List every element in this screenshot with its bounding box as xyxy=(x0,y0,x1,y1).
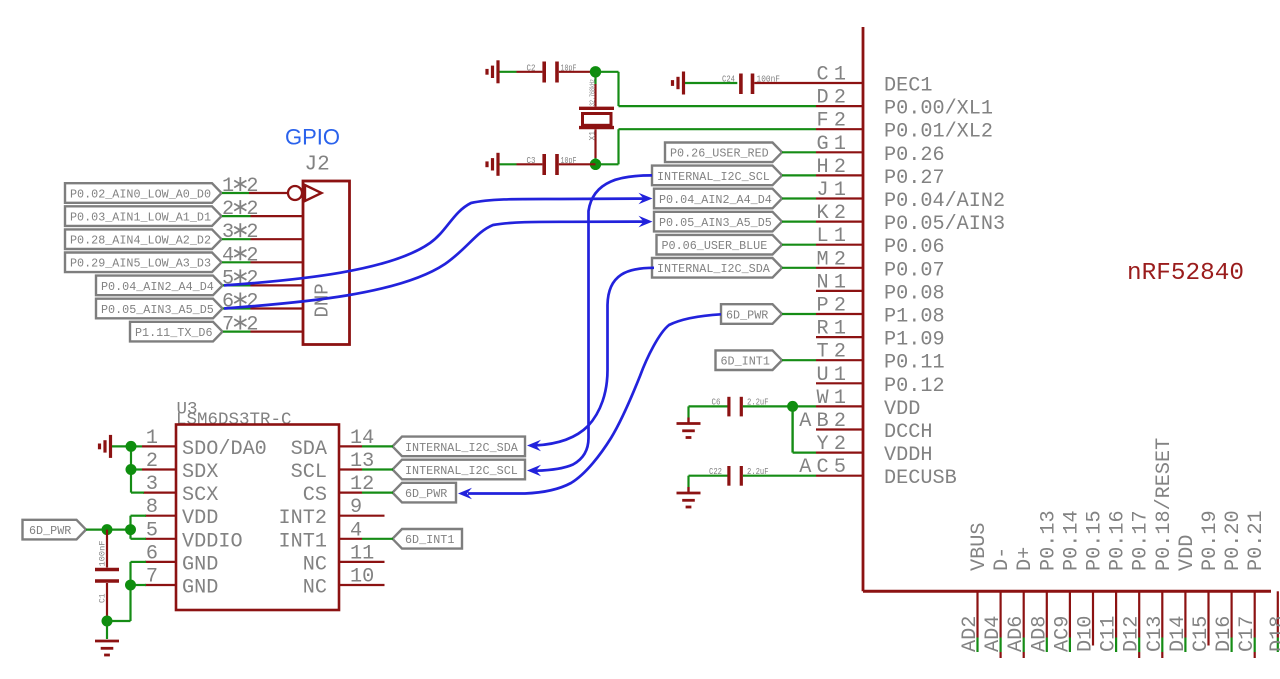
svg-text:10: 10 xyxy=(350,566,374,589)
svg-text:P0.08: P0.08 xyxy=(884,282,945,305)
svg-text:P0.26_USER_RED: P0.26_USER_RED xyxy=(670,147,769,161)
net flag INTERNAL_I2C_SDA xyxy=(652,258,782,278)
wire C6 to VDD pin xyxy=(743,405,816,407)
ground (XC1) xyxy=(487,60,498,83)
svg-text:GPIO: GPIO xyxy=(285,125,340,150)
svg-text:INT2: INT2 xyxy=(279,507,327,530)
U3 pin 5 VDDIO xyxy=(145,519,243,553)
pin AD6 D+ xyxy=(1005,547,1037,658)
svg-text:AD6: AD6 xyxy=(1005,616,1028,652)
U3 pin 12 CS xyxy=(303,473,374,507)
svg-text:P0.05_AIN3_A5_D5: P0.05_AIN3_A5_D5 xyxy=(101,303,214,317)
capacitor C22 xyxy=(729,466,741,486)
svg-text:AD4: AD4 xyxy=(982,616,1005,652)
svg-text:INTERNAL_I2C_SCL: INTERNAL_I2C_SCL xyxy=(657,170,770,184)
svg-text:INTERNAL_I2C_SCL: INTERNAL_I2C_SCL xyxy=(405,464,518,478)
ground (U3 GND) xyxy=(95,641,119,655)
svg-text:2: 2 xyxy=(246,198,258,221)
wire 6D_PWR to VDD/VDDIO xyxy=(86,516,146,539)
wire C2 to XL1 node xyxy=(559,71,596,73)
svg-text:C24: C24 xyxy=(722,74,735,85)
svg-text:P0.05/AIN3: P0.05/AIN3 xyxy=(884,213,1005,236)
net flag P1.11_TX_D6 xyxy=(130,322,223,342)
net flag P0.26_USER_RED xyxy=(665,143,782,163)
junction node XL1 xyxy=(590,66,601,77)
wire 6D_PWR to pin P2 xyxy=(782,313,816,315)
wire CS pin to flag xyxy=(362,492,393,494)
svg-text:D10: D10 xyxy=(1075,616,1098,652)
capacitor C2 xyxy=(517,62,558,83)
wire GND net U3 xyxy=(107,562,146,621)
U3 pin 1 SDO/DA0 xyxy=(131,427,267,461)
svg-text:C1: C1 xyxy=(817,64,852,87)
net flag 6D_PWR (U3 supply) xyxy=(23,520,87,540)
pin P2 P1.08 xyxy=(816,295,945,329)
ground (C6) xyxy=(677,418,701,438)
svg-text:P0.06_USER_BLUE: P0.06_USER_BLUE xyxy=(662,239,768,253)
junction node C1 bottom xyxy=(102,616,113,627)
svg-text:P0.03_AIN1_LOW_A1_D1: P0.03_AIN1_LOW_A1_D1 xyxy=(70,211,211,225)
wire net P0.04_AIN2_A4_D4 to J2 pin 5 xyxy=(223,284,303,286)
svg-text:C15: C15 xyxy=(1190,616,1213,652)
svg-text:D+: D+ xyxy=(1014,547,1037,571)
J2 pin label 6*2 xyxy=(222,291,259,314)
net flag P0.29_AIN5_LOW_A3_D3 xyxy=(65,253,222,273)
net flag INTERNAL_I2C_SDA (U3) xyxy=(393,437,526,457)
svg-text:6D_PWR: 6D_PWR xyxy=(29,524,71,538)
pin R1 P1.09 xyxy=(816,318,945,352)
svg-text:C22: C22 xyxy=(709,466,722,477)
J2 pin label 1*2 xyxy=(222,175,259,198)
U3 pin 8 VDD xyxy=(145,496,218,530)
wire gnd to C2 xyxy=(500,71,517,73)
svg-text:4: 4 xyxy=(350,519,362,542)
svg-text:P0.11: P0.11 xyxy=(884,352,945,375)
pin D10 P0.15 xyxy=(1075,510,1107,652)
pin M2 P0.07 xyxy=(816,248,945,282)
wire net P0.29_AIN5_LOW_A3_D3 to J2 pin 4 xyxy=(222,261,303,263)
J2 pin label 4*2 xyxy=(222,244,259,267)
wire gnd to C3 xyxy=(500,163,517,165)
svg-text:D14: D14 xyxy=(1167,616,1190,652)
wire node XL1 to P0.00/XL1 pin xyxy=(596,72,817,106)
svg-text:2: 2 xyxy=(246,314,258,337)
svg-text:P1.11_TX_D6: P1.11_TX_D6 xyxy=(135,326,213,340)
svg-text:J1: J1 xyxy=(817,179,852,202)
pin AD8 P0.13 xyxy=(1028,510,1060,652)
svg-text:F2: F2 xyxy=(817,110,852,133)
junction node SDO xyxy=(126,441,137,452)
svg-text:P0.12: P0.12 xyxy=(884,375,945,398)
svg-text:P0.04_AIN2_A4_D4: P0.04_AIN2_A4_D4 xyxy=(101,280,214,294)
svg-text:P0.27: P0.27 xyxy=(884,167,945,190)
wire (xref 6D_PWR) xyxy=(458,314,721,499)
net flag 6D_PWR xyxy=(721,304,782,324)
pin AD2 VBUS xyxy=(959,523,991,652)
pin J1 P0.04/AIN2 xyxy=(816,179,1005,213)
pin AB2 DCCH xyxy=(799,410,932,444)
U3 pin 9 INT2 xyxy=(279,496,385,530)
svg-text:P0.20: P0.20 xyxy=(1222,510,1245,571)
pin F2 P0.01/XL2 xyxy=(816,110,993,144)
svg-text:SDA: SDA xyxy=(291,438,328,461)
svg-text:GND: GND xyxy=(182,553,218,576)
svg-text:SCL: SCL xyxy=(291,461,327,484)
svg-text:C6: C6 xyxy=(712,397,721,408)
pin U1 P0.12 xyxy=(816,364,945,398)
svg-text:6D_INT1: 6D_INT1 xyxy=(405,533,454,547)
connector J2 body (DNP) xyxy=(303,181,350,345)
net flag P0.04_AIN2_A4_D4 xyxy=(96,276,223,296)
svg-text:VDDIO: VDDIO xyxy=(182,530,243,553)
svg-text:P0.17: P0.17 xyxy=(1130,510,1153,571)
net flag INTERNAL_I2C_SCL xyxy=(652,166,782,186)
svg-text:P0.28_AIN4_LOW_A2_D2: P0.28_AIN4_LOW_A2_D2 xyxy=(70,234,211,248)
svg-text:K2: K2 xyxy=(817,202,852,225)
wire net P0.28_AIN4_LOW_A2_D2 to J2 pin 3 xyxy=(222,238,303,240)
svg-text:P0.15: P0.15 xyxy=(1084,510,1107,571)
svg-text:NC: NC xyxy=(303,577,327,600)
wire C24 to DEC1 pin xyxy=(754,82,816,84)
svg-text:P0.04_AIN2_A4_D4: P0.04_AIN2_A4_D4 xyxy=(659,193,772,207)
capacitor C1 xyxy=(95,530,119,621)
svg-text:DECUSB: DECUSB xyxy=(884,467,957,490)
svg-text:L1: L1 xyxy=(817,225,852,248)
pin L1 P0.06 xyxy=(816,225,945,259)
svg-text:CS: CS xyxy=(303,484,327,507)
svg-text:P0.07: P0.07 xyxy=(884,259,945,282)
pin D12 P0.17 xyxy=(1121,510,1153,658)
net flag P0.05_AIN3_A5_D5 xyxy=(654,212,782,232)
svg-text:D18: D18 xyxy=(1267,616,1280,652)
svg-text:DCCH: DCCH xyxy=(884,421,932,444)
svg-text:SDX: SDX xyxy=(182,461,218,484)
wire net P0.05_AIN3_A5_D5 to J2 pin 6 xyxy=(223,307,303,309)
svg-text:2: 2 xyxy=(246,267,258,290)
svg-text:Y2: Y2 xyxy=(817,433,852,456)
pin D2 P0.00/XL1 xyxy=(816,87,993,121)
capacitor C24 xyxy=(741,74,753,95)
J2 pin 1 marker (circle + clock triangle) xyxy=(288,185,322,201)
svg-text:P1.09: P1.09 xyxy=(884,329,945,352)
pin C1 DEC1 xyxy=(816,64,932,98)
ground (XC2) xyxy=(487,153,498,176)
svg-text:P0.00/XL1: P0.00/XL1 xyxy=(884,98,993,121)
svg-text:VDD: VDD xyxy=(884,398,920,421)
svg-text:SCX: SCX xyxy=(182,484,218,507)
U3 pin 7 GND xyxy=(145,566,218,600)
wire (xref P0.04_AIN2_A4_D4) xyxy=(224,193,653,286)
svg-text:nRF52840: nRF52840 xyxy=(1127,260,1244,287)
net flag P0.04_AIN2_A4_D4 xyxy=(654,189,782,209)
J2 pin label 7*2 xyxy=(222,314,259,337)
junction node XL2 xyxy=(590,159,601,170)
junction node GND pin7 xyxy=(125,580,136,591)
pin C15 P0.19 xyxy=(1190,510,1222,652)
svg-text:P0.18/RESET: P0.18/RESET xyxy=(1153,438,1176,571)
svg-text:AD8: AD8 xyxy=(1028,616,1051,652)
svg-text:D16: D16 xyxy=(1213,616,1236,652)
net flag P0.02_AIN0_LOW_A0_D0 xyxy=(65,183,222,203)
wire (xref INTERNAL_I2C_SCL) xyxy=(527,175,652,476)
svg-text:D-: D- xyxy=(991,547,1014,571)
U3 pin 10 NC xyxy=(303,566,385,600)
ground (U3 SDO) xyxy=(100,435,111,458)
capacitor C3 xyxy=(517,154,558,175)
crystal X1 32.768kHz xyxy=(579,72,614,165)
svg-text:G1: G1 xyxy=(817,133,852,156)
svg-text:C3: C3 xyxy=(527,155,536,166)
svg-text:32.768kHz: 32.768kHz xyxy=(590,79,598,106)
svg-text:P0.26: P0.26 xyxy=(884,144,945,167)
svg-text:6D_PWR: 6D_PWR xyxy=(726,308,768,322)
pin W1 VDD xyxy=(816,387,920,421)
svg-text:2: 2 xyxy=(222,198,234,221)
svg-text:C1: C1 xyxy=(99,593,108,603)
junction node VDDIO xyxy=(125,524,136,535)
svg-text:P2: P2 xyxy=(817,295,852,318)
wire INT1 pin to flag xyxy=(362,538,393,540)
svg-text:C2: C2 xyxy=(527,63,536,74)
junction node VDD xyxy=(787,401,798,412)
wire INTERNAL_I2C_SCL to pin H2 xyxy=(782,174,816,176)
U3 pin 14 SDA xyxy=(291,427,375,461)
svg-text:P0.02_AIN0_LOW_A0_D0: P0.02_AIN0_LOW_A0_D0 xyxy=(70,187,211,201)
svg-text:2: 2 xyxy=(246,291,258,314)
svg-text:P0.29_AIN5_LOW_A3_D3: P0.29_AIN5_LOW_A3_D3 xyxy=(70,257,211,271)
wire (xref P0.05_AIN3_A5_D5) xyxy=(224,216,653,309)
ground (C22) xyxy=(677,487,701,507)
svg-text:3: 3 xyxy=(146,473,158,496)
svg-text:H2: H2 xyxy=(817,156,852,179)
svg-text:AD2: AD2 xyxy=(959,616,982,652)
wire (xref INTERNAL_I2C_SDA) xyxy=(527,268,654,452)
net flag 6D_INT1 (U3 INT1) xyxy=(393,529,463,549)
capacitor C6 xyxy=(729,397,741,417)
U3 pin 13 SCL xyxy=(291,450,375,484)
junction node SDX xyxy=(126,464,137,475)
svg-text:P0.04/AIN2: P0.04/AIN2 xyxy=(884,190,1005,213)
pin Y2 VDDH xyxy=(816,433,932,467)
wire gnd to SDO/SDX/SCX xyxy=(112,446,144,492)
wire P0.06_USER_BLUE to pin L1 xyxy=(782,244,816,246)
svg-text:X1: X1 xyxy=(589,131,598,141)
svg-text:6D_PWR: 6D_PWR xyxy=(405,487,447,501)
svg-text:6D_INT1: 6D_INT1 xyxy=(721,355,770,369)
svg-text:2: 2 xyxy=(246,221,258,244)
J2 pin label 2*2 xyxy=(222,198,259,221)
svg-text:GND: GND xyxy=(182,577,218,600)
wire net P0.03_AIN1_LOW_A1_D1 to J2 pin 2 xyxy=(222,215,303,217)
wire DECUSB node xyxy=(689,476,728,487)
net flag 6D_PWR (U3 CS) xyxy=(393,483,457,503)
J2 pin label 3*2 xyxy=(222,221,259,244)
wire 6D_INT1 to pin T2 xyxy=(782,359,816,361)
svg-text:8: 8 xyxy=(146,496,158,519)
pin C11 P0.16 xyxy=(1098,510,1130,652)
pin D18 xyxy=(1267,591,1280,652)
wire gnd to C24 xyxy=(685,82,737,84)
svg-text:INTERNAL_I2C_SDA: INTERNAL_I2C_SDA xyxy=(657,262,771,276)
svg-text:11: 11 xyxy=(350,542,374,565)
J2 pin label 5*2 xyxy=(222,267,259,290)
pin N1 P0.08 xyxy=(816,271,945,305)
wire VDD node to VDDH pin xyxy=(793,406,816,452)
svg-text:D12: D12 xyxy=(1121,616,1144,652)
svg-text:P0.13: P0.13 xyxy=(1037,510,1060,571)
svg-text:5: 5 xyxy=(222,267,234,290)
pin D14 VDD xyxy=(1167,535,1199,652)
net flag P0.05_AIN3_A5_D5 xyxy=(96,299,223,319)
svg-text:VDD: VDD xyxy=(1176,535,1199,571)
svg-text:NC: NC xyxy=(303,553,327,576)
svg-text:P0.19: P0.19 xyxy=(1199,510,1222,571)
svg-text:J2: J2 xyxy=(305,154,330,177)
svg-text:INTERNAL_I2C_SDA: INTERNAL_I2C_SDA xyxy=(405,441,519,455)
wire C22 to DECUSB pin xyxy=(743,475,816,477)
pin H2 P0.27 xyxy=(816,156,945,190)
svg-text:2: 2 xyxy=(146,450,158,473)
svg-text:3: 3 xyxy=(222,221,234,244)
U3 pin 11 NC xyxy=(303,542,385,576)
svg-text:N1: N1 xyxy=(817,271,852,294)
pin K2 P0.05/AIN3 xyxy=(816,202,1005,236)
svg-text:2: 2 xyxy=(246,244,258,267)
U3 pin 2 SDX xyxy=(131,450,219,484)
pin C17 P0.21 xyxy=(1236,510,1268,658)
U3 pin 3 SCX xyxy=(143,473,218,507)
svg-text:6: 6 xyxy=(146,542,158,565)
svg-text:C17: C17 xyxy=(1236,616,1259,652)
svg-text:VDDH: VDDH xyxy=(884,444,932,467)
wire P0.26_USER_RED to pin G1 xyxy=(782,151,816,153)
svg-text:M2: M2 xyxy=(817,248,852,271)
pin AC9 P0.14 xyxy=(1051,510,1083,652)
svg-text:100nF: 100nF xyxy=(99,540,108,566)
svg-text:4: 4 xyxy=(222,244,234,267)
net flag INTERNAL_I2C_SCL (U3) xyxy=(393,460,526,480)
ground (C24) xyxy=(673,72,684,95)
svg-text:DEC1: DEC1 xyxy=(884,75,932,98)
svg-text:D2: D2 xyxy=(817,87,852,110)
svg-text:P0.14: P0.14 xyxy=(1060,510,1083,571)
svg-text:VBUS: VBUS xyxy=(968,523,991,571)
net flag P0.28_AIN4_LOW_A2_D2 xyxy=(65,229,222,249)
IC U3 body xyxy=(176,425,339,611)
wire INTERNAL_I2C_SDA to pin M2 xyxy=(782,267,816,269)
svg-text:LSM6DS3TR-C: LSM6DS3TR-C xyxy=(176,410,292,430)
svg-text:P1.08: P1.08 xyxy=(884,306,945,329)
svg-text:P0.16: P0.16 xyxy=(1107,510,1130,571)
svg-text:U1: U1 xyxy=(817,364,852,387)
pin C13 P0.18/RESET xyxy=(1144,438,1176,658)
wire net P1.11_TX_D6 to J2 pin 7 xyxy=(223,331,303,333)
svg-text:9: 9 xyxy=(350,496,362,519)
svg-text:C11: C11 xyxy=(1098,616,1121,652)
wire SCL pin to flag xyxy=(362,468,393,470)
svg-text:1: 1 xyxy=(146,427,158,450)
net flag 6D_INT1 xyxy=(716,350,783,370)
wire net P0.02_AIN0_LOW_A0_D0 to J2 pin 1 xyxy=(222,192,288,194)
junction node C1 top xyxy=(102,524,113,535)
svg-text:P0.05_AIN3_A5_D5: P0.05_AIN3_A5_D5 xyxy=(659,216,772,230)
svg-text:AC9: AC9 xyxy=(1051,616,1074,652)
pin G1 P0.26 xyxy=(816,133,945,167)
net flag P0.03_AIN1_LOW_A1_D1 xyxy=(65,206,222,226)
svg-text:6: 6 xyxy=(222,291,234,314)
IC U1 nRF52840 body outline xyxy=(863,27,1271,591)
wire P0.05_AIN3_A5_D5 to pin K2 xyxy=(782,221,816,223)
svg-text:W1: W1 xyxy=(817,387,852,410)
svg-text:AB2: AB2 xyxy=(799,410,851,433)
pin AD4 D- xyxy=(982,547,1014,658)
svg-text:1: 1 xyxy=(222,175,234,198)
wire to ground xyxy=(106,621,108,639)
U3 pin 6 GND xyxy=(145,542,218,576)
svg-text:INT1: INT1 xyxy=(279,530,327,553)
net flag P0.06_USER_BLUE xyxy=(657,235,783,255)
wire node XL2 to P0.01/XL2 pin xyxy=(596,129,817,164)
svg-text:7: 7 xyxy=(222,314,234,337)
pin D16 P0.20 xyxy=(1213,510,1245,652)
wire SDA pin to flag xyxy=(362,445,393,447)
svg-text:T2: T2 xyxy=(817,341,852,364)
svg-text:P0.21: P0.21 xyxy=(1245,510,1268,571)
svg-text:2: 2 xyxy=(246,175,258,198)
svg-text:P0.06: P0.06 xyxy=(884,236,945,259)
pin AC5 DECUSB xyxy=(799,456,956,490)
svg-text:7: 7 xyxy=(146,566,158,589)
svg-text:P0.01/XL2: P0.01/XL2 xyxy=(884,121,993,144)
wire C3 to node XL2 xyxy=(559,163,596,165)
U3 pin 4 INT1 xyxy=(279,519,363,553)
wire P0.04_AIN2_A4_D4 to pin J1 xyxy=(782,197,816,199)
svg-text:5: 5 xyxy=(146,519,158,542)
pin T2 P0.11 xyxy=(816,341,945,375)
svg-text:VDD: VDD xyxy=(182,507,218,530)
wire VDD node xyxy=(689,406,728,417)
svg-text:SDO/DA0: SDO/DA0 xyxy=(182,438,267,461)
svg-text:R1: R1 xyxy=(817,318,852,341)
svg-text:C13: C13 xyxy=(1144,616,1167,652)
